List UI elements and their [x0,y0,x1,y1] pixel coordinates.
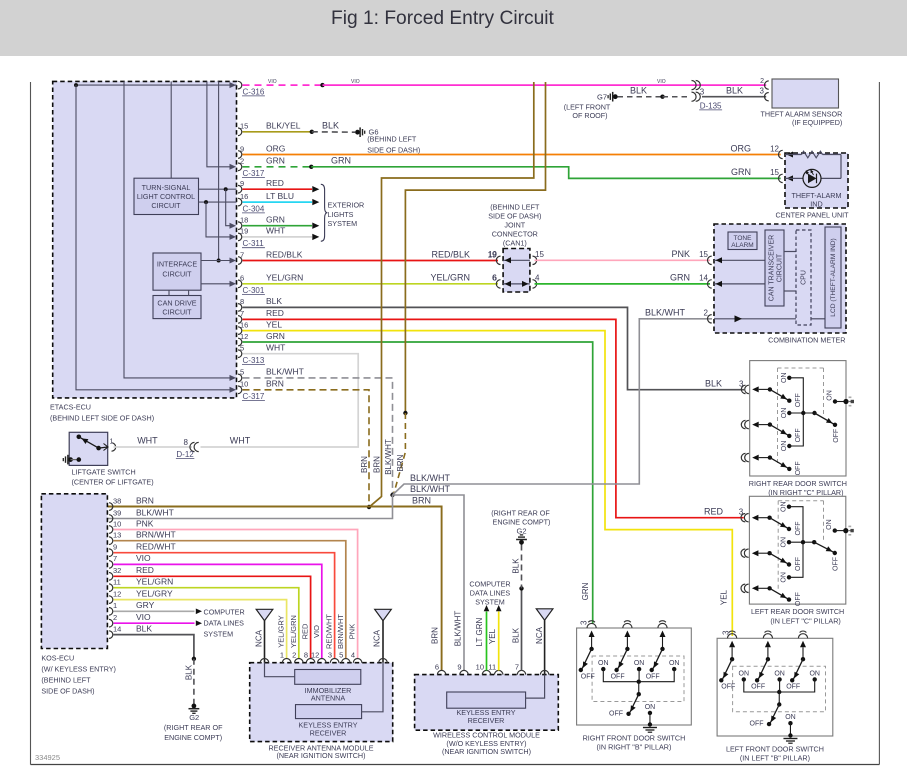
wire YEL/GRY KOS pin 12 to receiver module pin 1 [114,600,287,659]
ETACS interior long vertical v6 [217,81,221,262]
joint connector CAN1 note [488,203,541,248]
svg-text:BLK: BLK [136,623,152,633]
svg-text:OFF: OFF [721,684,735,691]
svg-text:GRN: GRN [266,156,285,166]
svg-text:JOINT: JOINT [504,221,525,230]
svg-text:VIO: VIO [136,553,151,563]
right front door switch [577,621,692,752]
svg-text:BLK/WHT: BLK/WHT [410,484,451,494]
labels PNK 15 at combination meter [671,249,708,259]
svg-text:PNK: PNK [136,518,154,528]
svg-text:3: 3 [760,87,765,96]
LCD theft-alarm ind box [825,227,841,328]
svg-text:15: 15 [535,250,544,259]
wire meter pin 2 to CPU [714,315,796,322]
svg-text:9: 9 [457,663,461,672]
svg-text:LT GRN: LT GRN [475,617,484,646]
CPU box [796,230,811,325]
svg-text:BRN/WHT: BRN/WHT [136,530,176,540]
label BLK on G6 wire [322,121,339,131]
svg-text:ON: ON [781,501,788,512]
svg-text:VIO: VIO [268,79,277,85]
svg-text:BRN: BRN [372,456,381,473]
svg-text:YEL/GRN: YEL/GRN [289,615,298,648]
receiver antenna module labels [268,743,373,760]
junction BRN node [367,505,371,509]
svg-text:BLK/WHT: BLK/WHT [454,611,463,647]
svg-text:BLK: BLK [266,296,282,306]
svg-text:YEL/GRN: YEL/GRN [430,273,470,283]
svg-text:SYSTEM: SYSTEM [328,219,358,228]
wire YEL pin 11 to computer data lines [496,605,502,671]
theft alarm sensor labels [761,109,843,127]
svg-text:TONE: TONE [734,235,753,242]
svg-text:3: 3 [722,630,731,635]
svg-text:C-316: C-316 [243,87,265,96]
wire GRN pin 2 dashed [243,165,314,169]
svg-text:NCA: NCA [535,626,544,644]
svg-text:OFF: OFF [646,673,660,680]
label 2 at theft alarm sensor VIO pin [760,78,764,85]
svg-text:OFF: OFF [833,429,840,443]
svg-text:9: 9 [240,179,244,188]
svg-text:SYSTEM: SYSTEM [475,598,505,607]
labels GRN 14 at combination meter [670,273,709,283]
svg-text:BRN: BRN [431,627,440,644]
svg-text:C-313: C-313 [243,356,265,365]
svg-text:RED: RED [266,308,284,318]
wire RED KOS pin 32 to receiver module pin 8 [114,576,311,658]
svg-text:BRN: BRN [136,495,154,505]
svg-text:12: 12 [240,332,248,341]
svg-text:ON: ON [645,704,656,711]
svg-text:15: 15 [240,122,248,131]
rotated labels LT GRN YEL [475,617,497,646]
svg-text:334925: 334925 [35,753,60,762]
svg-text:D-135: D-135 [700,101,722,110]
wire GRY KOS pin 1 to computer data lines [114,609,203,615]
svg-text:PNK: PNK [348,624,357,639]
ETACS-ECU box [53,81,237,398]
tone alarm box [728,232,757,250]
svg-text:7: 7 [240,250,244,259]
ETACS interior wire to pin 18 [226,189,236,229]
ETACS-ECU label [50,403,154,423]
wire GRN pin 12 to right front door switch [243,342,593,624]
svg-text:YEL: YEL [266,319,282,329]
svg-text:(NEAR IGNITION SWITCH): (NEAR IGNITION SWITCH) [442,747,531,756]
svg-text:CIRCUIT: CIRCUIT [162,308,192,317]
svg-text:8: 8 [184,438,189,447]
wire ORG pin 9 to center panel unit [243,154,781,156]
ground G2 (upper) [491,508,550,544]
svg-text:BLK/WHT: BLK/WHT [136,507,174,517]
svg-text:KOS-ECU: KOS-ECU [41,653,74,662]
keyless entry receiver box (wireless module) [447,692,526,725]
joint connector internal CAN-H [503,257,530,263]
wire RED/WHT KOS pin 9 to receiver module pin 3 [114,553,335,659]
receiver antenna module box [250,663,393,742]
label YEL 3 at left front door switch [720,589,731,635]
svg-text:14: 14 [699,274,708,283]
wire WHT pin 5 to liftgate switch [201,354,359,447]
svg-text:(W/ KEYLESS ENTRY): (W/ KEYLESS ENTRY) [41,664,116,673]
wire WHT liftgate to D-12 [114,446,193,448]
wire BRN vertical pair upper right [370,82,534,506]
svg-text:OFF: OFF [611,673,625,680]
liftgate switch contacts [77,435,109,451]
svg-text:(RIGHT REAR OF: (RIGHT REAR OF [164,723,223,732]
computer data lines system label (wireless) [469,579,510,606]
antenna NCA right [373,609,392,662]
svg-text:OFF: OFF [786,684,800,691]
svg-text:19: 19 [488,250,497,259]
junction BLK/WHT node [390,493,394,497]
svg-text:12: 12 [311,651,319,660]
svg-text:BLK: BLK [705,379,722,389]
svg-text:RECEIVER: RECEIVER [310,728,347,737]
immobilizer antenna box [295,670,361,703]
labels ORG 12 at center panel [730,143,779,153]
svg-text:BRN: BRN [266,379,284,389]
svg-text:10: 10 [476,663,484,672]
svg-text:16: 16 [240,320,248,329]
wire NCA to keyless entry receiver [362,663,383,712]
svg-text:BLK/WHT: BLK/WHT [384,439,393,475]
svg-text:ON: ON [781,572,788,583]
wire BLK dashed to G2 [193,659,195,704]
svg-text:ANTENNA: ANTENNA [311,694,346,703]
wire BRN pin 10 dashed [243,390,370,506]
ground G2 (bottom) [164,704,223,743]
wire BLK/YEL from pin 15 [243,130,314,134]
svg-text:4: 4 [351,651,355,660]
svg-text:GRN: GRN [266,331,285,341]
svg-text:ORG: ORG [266,143,285,153]
svg-text:BLK: BLK [726,86,743,96]
svg-text:LIGHTS: LIGHTS [328,210,354,219]
wire meter pin 14 to CAN transceiver [714,281,765,287]
svg-text:VIO: VIO [136,612,151,622]
svg-text:ORG: ORG [730,143,751,153]
title bar [0,0,907,56]
svg-text:32: 32 [113,566,121,575]
svg-text:1: 1 [280,651,284,660]
svg-text:5: 5 [240,368,244,377]
svg-text:G7: G7 [597,93,607,102]
svg-text:(NEAR IGNITION SWITCH): (NEAR IGNITION SWITCH) [276,751,365,760]
svg-text:ON: ON [774,670,785,677]
svg-text:WHT: WHT [137,435,158,445]
svg-text:VIO: VIO [312,625,321,638]
svg-text:8: 8 [304,651,308,660]
svg-text:RED/BLK: RED/BLK [266,249,303,259]
svg-text:CPU: CPU [800,270,807,285]
center panel unit box [785,153,848,208]
svg-text:SIDE OF DASH): SIDE OF DASH) [41,686,94,695]
svg-text:BRN: BRN [360,456,369,473]
joint connector CAN1 box [503,249,530,293]
connector D-12 [176,438,199,459]
wire BLK KOS pin 14 to ground G2 [114,635,197,661]
svg-text:OFF: OFF [795,428,802,442]
svg-text:ENGINE COMPT): ENGINE COMPT) [493,518,551,527]
liftgate switch ground [63,455,81,465]
KOS-ECU connector pins with numbers and colour labels [109,495,176,638]
rotated labels BLK at wireless module [512,558,521,643]
svg-text:C-317: C-317 [243,392,265,401]
connector on VIO wire [692,81,701,90]
svg-text:2: 2 [240,157,244,166]
labels BLK 3 at theft alarm sensor [726,86,765,96]
svg-text:6: 6 [240,274,244,283]
labels BLK/WHT 2 at combination meter [645,308,709,318]
svg-text:WHT: WHT [266,343,285,353]
svg-text:ON: ON [669,660,680,667]
wire RED/BLK pin 7 to joint connector [243,260,499,262]
wire LT BLU pin 16 to exterior lights [243,199,320,205]
theft alarm sensor box [772,79,839,108]
wire BLK pin 8 to right rear door switch [243,307,745,389]
wire NCA to immobilizer antenna [265,663,295,677]
svg-text:RED/WHT: RED/WHT [325,614,334,649]
interface circuit box [153,253,201,290]
svg-text:9: 9 [113,543,117,552]
wire BRN vertical second [403,82,545,415]
ETACS interior vertical v4 into turn-signal box [170,81,172,178]
svg-text:OFF: OFF [795,557,802,571]
svg-text:C-301: C-301 [243,286,265,295]
labels BLK 3 at right rear door switch [705,379,744,389]
svg-text:SYSTEM: SYSTEM [204,629,234,638]
svg-text:COMBINATION METER: COMBINATION METER [768,336,845,345]
svg-text:19: 19 [240,227,248,236]
joint connector pins 19 15 6 4 [488,250,544,288]
svg-text:13: 13 [113,531,121,540]
svg-text:(BEHIND LEFT: (BEHIND LEFT [41,675,91,684]
keyless entry receiver box (receiver antenna module) [296,705,362,738]
wire CPU to LCD [811,318,825,320]
svg-text:YEL: YEL [488,628,497,644]
svg-text:7: 7 [113,554,117,563]
svg-text:OFF: OFF [795,592,802,606]
ETACS interior vertical v2 to pin 5 BLK/WHT [124,81,236,381]
svg-text:DATA LINES: DATA LINES [204,618,245,627]
svg-text:5: 5 [339,651,343,660]
wires CAN transceiver to CPU [784,252,796,292]
svg-text:OFF: OFF [795,522,802,536]
computer data lines system label (KOS) [204,607,245,638]
svg-text:DATA LINES: DATA LINES [470,589,511,598]
svg-text:BLK: BLK [512,627,521,643]
combination meter box [714,224,846,333]
svg-text:2: 2 [760,78,764,85]
svg-text:YEL/GRY: YEL/GRY [136,588,173,598]
svg-text:1: 1 [113,601,117,610]
labels YEL/GRN 6 at joint connector [430,273,497,283]
svg-text:OFF: OFF [750,721,764,728]
wire GRN solid to center panel unit [311,167,780,179]
svg-text:NCA: NCA [373,629,382,647]
wire TSL to pin 9 RED [199,187,237,191]
rotated labels BRN BLK/WHT at wireless module [431,611,463,647]
label BLK rotated [185,664,194,680]
svg-text:COMPUTER: COMPUTER [469,579,510,588]
svg-text:9: 9 [240,144,244,153]
svg-text:ETACS-ECU: ETACS-ECU [50,403,91,412]
svg-text:BRN: BRN [412,496,431,506]
svg-text:ON: ON [781,537,788,548]
svg-text:38: 38 [113,496,121,505]
svg-text:16: 16 [240,192,248,201]
wire PNK joint connector to combination meter [535,259,711,261]
svg-text:ON: ON [598,660,609,667]
svg-text:(IF EQUIPPED): (IF EQUIPPED) [792,118,842,127]
svg-text:7: 7 [240,309,244,318]
svg-text:TURN-SIGNAL: TURN-SIGNAL [142,183,191,192]
svg-text:CAN TRANSCEIVER: CAN TRANSCEIVER [768,235,775,301]
wireless control module box [415,675,559,731]
wire LT GRN pin 10 to computer data lines [484,605,490,671]
svg-text:BLK: BLK [322,121,339,131]
svg-text:ENGINE COMPT): ENGINE COMPT) [164,733,222,742]
svg-text:6: 6 [435,663,439,672]
wire RED pin 7 to left rear door switch [243,319,744,517]
wire WHT pin 19 to exterior lights [243,234,320,240]
svg-text:(CENTER OF LIFTGATE): (CENTER OF LIFTGATE) [72,478,154,487]
liftgate switch box [69,432,108,465]
ETACS interior wire to pin 19 [206,202,236,240]
svg-text:VIO: VIO [657,79,666,85]
exterior lights system brace and label [321,184,364,241]
svg-text:LEFT FRONT DOOR SWITCH: LEFT FRONT DOOR SWITCH [726,745,824,754]
wire BLK D-135 to theft alarm sensor [702,96,766,98]
svg-text:7: 7 [515,663,519,672]
svg-text:OFF: OFF [581,673,595,680]
label BLK/WHT upper branch [410,473,451,483]
center panel unit labels [775,191,849,220]
svg-text:CAN DRIVE: CAN DRIVE [157,298,196,307]
svg-text:(CAN1): (CAN1) [503,239,527,248]
svg-text:GRN: GRN [331,156,351,166]
wire NCA to keyless receiver (wireless) [526,675,545,699]
svg-text:YEL/GRN: YEL/GRN [266,273,303,283]
wire interface to pin 6 YEL/GRN [201,281,236,287]
svg-text:(BEHIND LEFT: (BEHIND LEFT [367,135,417,144]
svg-text:CIRCUIT: CIRCUIT [151,201,181,210]
turn-signal light control circuit box [134,178,199,214]
ETACS interior vertical v1 to pin 10 [76,85,236,393]
svg-text:WHT: WHT [230,435,251,445]
CAN transceiver circuit box [765,230,784,306]
svg-text:BLK/WHT: BLK/WHT [645,308,686,318]
svg-text:GRY: GRY [136,600,155,610]
wire BLK/WHT pin 5 dashed [243,378,393,494]
svg-text:OFF: OFF [833,557,840,571]
svg-text:CIRCUIT: CIRCUIT [162,270,192,279]
left rear door switch [741,496,854,625]
svg-text:ON: ON [781,373,788,384]
svg-text:CIRCUIT: CIRCUIT [776,253,783,282]
svg-text:ON: ON [785,714,796,721]
svg-text:BLK/WHT: BLK/WHT [410,473,451,483]
svg-text:39: 39 [113,508,121,517]
wire PNK KOS pin 10 to receiver module pin 4 [114,530,358,659]
svg-text:6: 6 [493,274,498,283]
svg-text:G2: G2 [516,527,526,536]
svg-text:18: 18 [240,216,248,225]
liftgate switch labels [72,468,154,487]
svg-text:3: 3 [580,620,589,625]
svg-text:ON: ON [826,390,833,401]
label BLK/WHT lower branch [410,484,451,494]
wire interface to pin 7 RED/BLK [201,258,236,264]
svg-text:GRN: GRN [581,582,590,600]
combination meter label [768,336,845,345]
svg-text:ON: ON [739,670,750,677]
svg-text:YEL/GRN: YEL/GRN [136,577,173,587]
svg-text:ON: ON [781,408,788,419]
svg-text:BRN/WHT: BRN/WHT [336,614,345,649]
svg-text:GRN: GRN [731,167,751,177]
svg-text:2: 2 [292,651,296,660]
svg-text:GRN: GRN [670,273,690,283]
svg-text:THEFT-ALARM: THEFT-ALARM [792,191,842,200]
left front door switch [717,631,833,762]
svg-text:(IN LEFT "C" PILLAR): (IN LEFT "C" PILLAR) [770,616,840,625]
svg-text:LIFTGATE SWITCH: LIFTGATE SWITCH [72,468,136,477]
wire VIO KOS pin 7 to receiver module pin 12 [114,564,322,658]
svg-text:RIGHT REAR DOOR SWITCH: RIGHT REAR DOOR SWITCH [749,479,847,488]
ground G7 [564,92,618,120]
ETACS interior wire to C-316 pin [74,82,237,88]
interface to CAN drive stubs [169,290,189,295]
antenna NCA wireless [535,609,553,675]
wire VIO KOS pin 2 to computer data lines [114,620,203,626]
combination meter pins 15 14 2 [708,256,712,323]
wire YEL/GRN KOS pin 11 to receiver module pin 2 [114,588,299,659]
svg-text:BLK: BLK [512,558,521,574]
svg-text:RED/BLK: RED/BLK [431,249,470,259]
svg-text:ON: ON [809,670,820,677]
svg-text:ON: ON [781,441,788,452]
wireless control module pins 6 9 10 11 7 [435,663,526,675]
right rear door switch [741,361,854,498]
svg-text:12: 12 [770,144,779,153]
svg-text:OFF: OFF [751,684,765,691]
svg-text:YEL/GRY: YEL/GRY [277,615,286,647]
center panel unit pins 12 15 [779,150,793,182]
svg-text:LEFT REAR DOOR SWITCH: LEFT REAR DOOR SWITCH [751,607,844,616]
svg-text:(BEHIND LEFT SIDE OF DASH): (BEHIND LEFT SIDE OF DASH) [50,414,154,423]
svg-text:RED: RED [301,623,310,639]
svg-text:10: 10 [240,380,248,389]
svg-text:(BEHIND LEFT: (BEHIND LEFT [490,203,540,212]
ground G6 [355,127,420,154]
wire TSL to pin 16 LT BLU [199,200,237,204]
svg-text:LCD (THEFT-ALARM IND): LCD (THEFT-ALARM IND) [830,238,837,316]
joint connector internal CAN-L [503,281,530,287]
wire VIO solid to theft alarm sensor [323,84,767,86]
connector D-135 [692,87,723,110]
wire YEL pin 16 to left front door switch [243,331,733,636]
svg-text:RED: RED [136,565,154,575]
tiny VIO labels on C-316 wire [268,79,666,85]
svg-text:CONNECTOR: CONNECTOR [492,230,538,239]
svg-text:SIDE OF DASH): SIDE OF DASH) [488,212,541,221]
svg-text:SIDE OF DASH): SIDE OF DASH) [367,145,420,154]
wire RED pin 9 to exterior lights [243,186,320,192]
